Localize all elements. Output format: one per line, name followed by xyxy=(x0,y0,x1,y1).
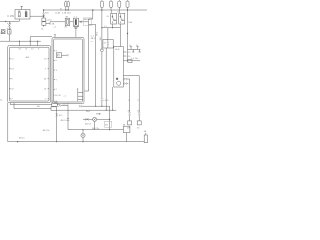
wire B2 pin lower 2 xyxy=(123,83,128,85)
wire F4 drop xyxy=(127,10,129,61)
wire SB2 top xyxy=(118,10,120,13)
wire bottom ground rail xyxy=(8,141,144,143)
svg-text:4B-Ch: 4B-Ch xyxy=(60,120,67,122)
motor circle in B2 xyxy=(117,81,121,85)
wire relay right xyxy=(79,21,82,23)
svg-text:4 4B: 4 4B xyxy=(62,13,67,15)
fuse right 2 xyxy=(110,1,113,7)
connector chevron in RB1 xyxy=(107,42,109,45)
component box c1b xyxy=(42,22,46,26)
relay case outline xyxy=(83,18,92,25)
svg-text:4B-C3x: 4B-C3x xyxy=(43,130,51,132)
svg-text:=-: =- xyxy=(91,41,93,43)
resistor inside C139 left xyxy=(18,12,20,17)
wire into left cluster xyxy=(8,21,10,29)
connector chevron on bulb line xyxy=(101,98,103,101)
wire bulb line to cluster xyxy=(101,101,103,106)
svg-text:4B 14: 4B 14 xyxy=(19,137,25,139)
component box c1a xyxy=(42,18,46,21)
wire box A bottom stub 2 xyxy=(13,103,15,109)
wire fuse right drops xyxy=(102,7,128,10)
svg-text:15A: 15A xyxy=(128,21,132,24)
wire lamp to corner xyxy=(97,118,110,120)
pin ticks box A right xyxy=(48,59,49,99)
resistor inside C139 right xyxy=(25,12,27,17)
relay LB1 xyxy=(1,30,5,34)
comp on pin wire xyxy=(128,60,132,63)
junction dots above box A xyxy=(19,41,20,42)
wire SB1 top xyxy=(110,10,112,13)
svg-text:C-1.24s: C-1.24s xyxy=(131,58,138,60)
small box cluster xyxy=(105,121,112,127)
connector chevron on W1 xyxy=(58,104,60,107)
connector chevron W1 extension xyxy=(79,105,82,107)
junction dots fuse drops xyxy=(65,9,66,10)
svg-text:4J: 4J xyxy=(104,42,106,44)
wire B2 pin lower 1 xyxy=(123,79,129,112)
wire C139 right to node xyxy=(30,15,44,17)
wire W2 extension xyxy=(56,109,116,111)
wire stub below c1b xyxy=(43,25,45,27)
wire corridor left drop xyxy=(85,25,89,92)
wire fuse left drops xyxy=(66,7,68,10)
wire F1 long drop xyxy=(101,10,103,49)
wire SB2 down to module xyxy=(119,28,121,47)
svg-text:4B-C3: 4B-C3 xyxy=(85,124,92,126)
pin stubs B2 right top xyxy=(123,52,126,56)
wire C139 bottom stub xyxy=(18,19,20,21)
svg-text:4 4B: 4 4B xyxy=(7,23,12,25)
wire link under switches xyxy=(102,24,120,28)
control unit box B inner xyxy=(54,39,83,102)
svg-text:C-DO M: C-DO M xyxy=(53,95,61,97)
connector chevron on node vertical xyxy=(43,14,45,16)
svg-text:4B-C3x: 4B-C3x xyxy=(92,128,100,130)
svg-text:1J 4B: 1J 4B xyxy=(49,23,55,25)
wire jog above box B xyxy=(30,37,52,42)
wire box A ground drop xyxy=(7,103,9,142)
svg-text:C-D04F: C-D04F xyxy=(50,101,58,103)
svg-text:I-4Ch: I-4Ch xyxy=(104,100,110,102)
terminal box r1 xyxy=(128,121,132,125)
heater element inside box B xyxy=(56,53,61,58)
control unit box B outer xyxy=(52,37,84,103)
pin ticks box B left xyxy=(54,51,55,89)
wire lamp down to rail xyxy=(94,121,96,129)
svg-text:MB-MR: MB-MR xyxy=(84,19,92,21)
wire top rail xyxy=(44,9,147,11)
condenser symbol above box B xyxy=(74,25,78,28)
wire left rail xyxy=(0,20,19,22)
connector chevron mid run xyxy=(80,21,82,23)
module box B2 xyxy=(114,47,124,88)
svg-text:4-D 4B: 4-D 4B xyxy=(63,103,70,105)
switch box SB2 xyxy=(119,13,125,24)
fuse left 1 xyxy=(65,2,67,7)
wire W1 corner down xyxy=(67,105,69,129)
terminal stub on C139 top xyxy=(21,6,23,9)
bus bar inside box B right xyxy=(77,88,79,101)
terminal box RB_a end xyxy=(124,126,130,132)
component box on W2 xyxy=(51,107,56,111)
wire RB1 bottom long drop xyxy=(105,48,107,110)
wire v56 down xyxy=(56,110,58,141)
terminal box r2 xyxy=(137,121,141,125)
svg-text:A+B: A+B xyxy=(115,48,120,51)
connector chevron column r1 xyxy=(129,112,131,115)
fuse right 3 xyxy=(118,1,121,7)
wire W1 xyxy=(10,104,52,106)
bulb symbol xyxy=(101,49,104,52)
wire W2 xyxy=(14,108,51,110)
control unit box A outer xyxy=(8,46,51,103)
pin ticks box A left xyxy=(9,59,10,99)
svg-text:1G: 1G xyxy=(137,127,140,129)
wire rail above box A xyxy=(0,40,41,42)
chevron B2 lower pin 2 xyxy=(124,82,127,84)
svg-text:4(7): 4(7) xyxy=(45,12,49,14)
wire link drop to connector box xyxy=(107,28,109,40)
wire B2 pin to comp xyxy=(123,60,140,62)
wire M1 to relay xyxy=(70,21,74,23)
svg-text:A,D: A,D xyxy=(67,12,71,15)
wire bulb down xyxy=(101,52,103,98)
fuse left 2 xyxy=(67,2,69,7)
bottom cluster wire left xyxy=(83,118,93,120)
switch box SB1 xyxy=(111,13,117,24)
wire B2 bottom drop xyxy=(112,87,114,110)
fuse right 4 xyxy=(126,1,129,7)
lamp circle cluster xyxy=(93,117,97,121)
relay M2 xyxy=(73,18,78,26)
wire stubs into box A top xyxy=(19,41,37,45)
svg-text:M: M xyxy=(116,78,118,80)
control unit box A inner xyxy=(9,47,49,101)
bus taps to box B right edge xyxy=(78,93,83,100)
svg-text:C 139: C 139 xyxy=(7,15,14,18)
junction dot left rail xyxy=(5,21,6,22)
connector chevron cluster xyxy=(85,118,88,120)
component box on W1 xyxy=(52,103,57,107)
wire corridor right drop xyxy=(95,25,97,107)
ground terminal right end xyxy=(144,135,147,143)
wire W1 extension right xyxy=(82,105,110,107)
junction dot node xyxy=(43,9,44,10)
connector chevron on v56 xyxy=(56,113,58,116)
fusible link b2 xyxy=(136,47,140,52)
wire B2 pin upper lower-group xyxy=(123,76,139,113)
connector chevron on v68 xyxy=(67,118,69,121)
svg-text:4B14: 4B14 xyxy=(0,33,6,35)
wire corner v109 xyxy=(109,106,111,130)
lamp on ground rail xyxy=(81,133,85,137)
connector chevron column r2 xyxy=(138,112,140,115)
connector box RB1 xyxy=(103,40,113,49)
stub RB_a box to rail xyxy=(126,133,128,142)
wire branch right xyxy=(128,48,141,50)
svg-text:1J: 1J xyxy=(104,26,106,28)
fusible link b1 xyxy=(130,47,135,52)
left cluster connector chevron xyxy=(8,24,10,26)
wire run to diode box xyxy=(46,22,65,24)
wire zigzag from rail xyxy=(88,10,95,25)
wire lower rail RB_a xyxy=(68,129,124,131)
wire LB2 to rail3 xyxy=(8,34,10,41)
diode box M1 xyxy=(65,18,70,26)
stub above box B left xyxy=(54,35,56,38)
svg-text:4-J14: 4-J14 xyxy=(46,20,52,22)
fuse right 1 xyxy=(100,1,103,7)
svg-text:1J-4B: 1J-4B xyxy=(55,13,61,15)
wire chevron to zigzag xyxy=(82,21,88,23)
wire box A bottom stub 1 xyxy=(9,103,11,105)
wire node vertical xyxy=(43,10,45,18)
connector C139 xyxy=(15,10,30,20)
chevron B2 lower pin 1 xyxy=(124,78,127,80)
fuse LB2 xyxy=(8,30,11,34)
